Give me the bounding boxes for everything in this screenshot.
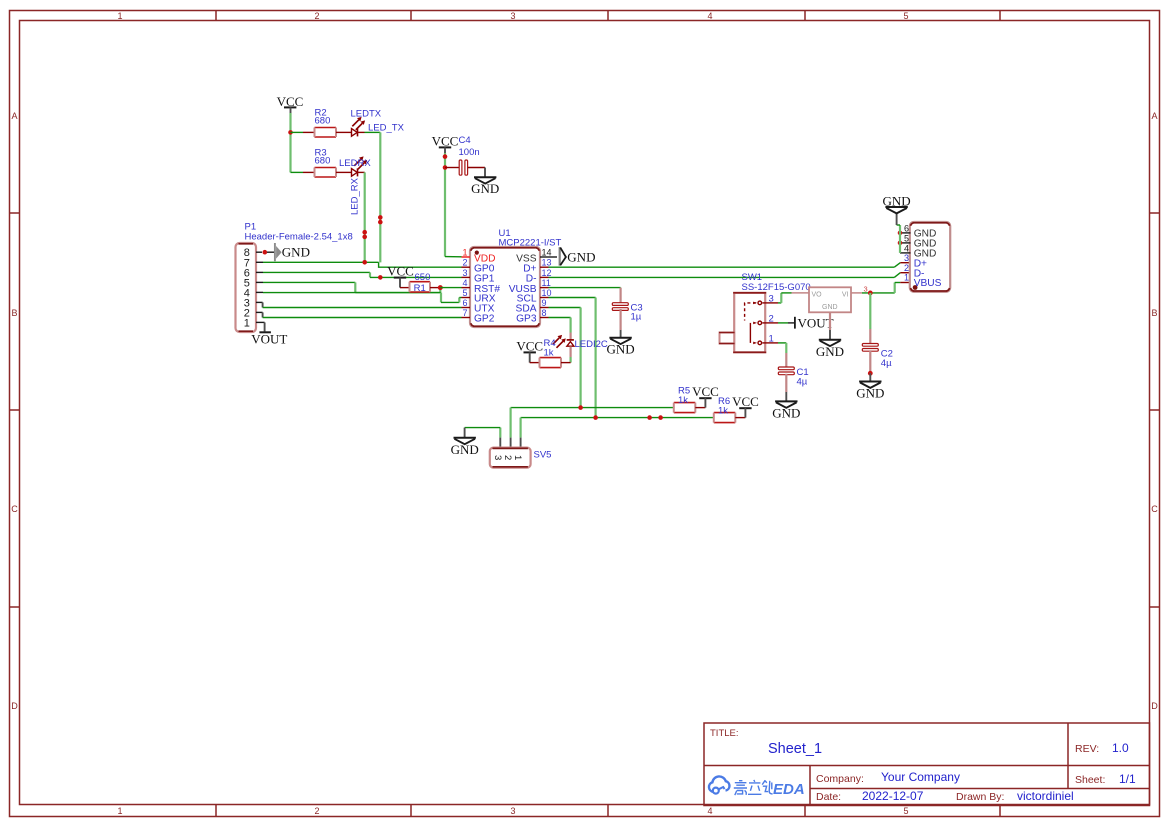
svg-text:1µ: 1µ bbox=[631, 312, 642, 323]
svg-text:1: 1 bbox=[769, 334, 774, 345]
switch SW1 SS-12F15-G070 bbox=[719, 272, 811, 352]
connector USB bbox=[900, 222, 950, 292]
svg-text:4: 4 bbox=[707, 11, 712, 21]
svg-text:GND: GND bbox=[451, 442, 479, 457]
svg-text:C: C bbox=[11, 504, 18, 514]
svg-text:Date:: Date: bbox=[816, 791, 841, 803]
svg-text:SV5: SV5 bbox=[534, 450, 552, 461]
svg-text:REV:: REV: bbox=[1075, 743, 1099, 755]
wire R3 left bbox=[291, 171, 315, 173]
wire RST junction to U1 bbox=[440, 287, 461, 289]
svg-text:1: 1 bbox=[512, 455, 523, 460]
wire R2 left bbox=[291, 131, 304, 133]
node dots on LED_TX wire bbox=[378, 215, 383, 220]
svg-text:B: B bbox=[11, 308, 17, 318]
node junction at R2 bbox=[288, 130, 293, 135]
node USB pin5 bbox=[898, 241, 903, 246]
svg-text:VCC: VCC bbox=[432, 134, 459, 149]
wire VUSB to C3 bbox=[549, 288, 621, 303]
svg-text:3: 3 bbox=[462, 268, 467, 278]
svg-text:2: 2 bbox=[314, 806, 319, 816]
wire SW1 pin1 to C1 bbox=[778, 343, 786, 368]
capacitor C4 bbox=[445, 135, 485, 175]
wire VDD from VCC bbox=[445, 256, 462, 258]
svg-text:MCP2221-I/ST: MCP2221-I/ST bbox=[499, 238, 562, 249]
power flag VCC (R6) bbox=[732, 394, 759, 417]
resistor R4 bbox=[530, 338, 571, 368]
svg-text:8: 8 bbox=[542, 308, 547, 318]
svg-text:C: C bbox=[1151, 504, 1158, 514]
svg-text:Company:: Company: bbox=[816, 773, 864, 785]
svg-text:A: A bbox=[1151, 111, 1157, 121]
ground (USB) bbox=[883, 194, 911, 225]
resistor R6 bbox=[714, 396, 746, 423]
svg-text:R1: R1 bbox=[414, 283, 426, 294]
wire P1 pin3 to UTX bbox=[256, 302, 462, 307]
node dots near C4 bbox=[443, 154, 448, 159]
power flag VCC (R1) bbox=[387, 264, 414, 288]
node dots on LED_RX wire bbox=[362, 230, 367, 235]
wire D+ to USB bbox=[549, 263, 911, 268]
svg-text:GND: GND bbox=[567, 250, 595, 265]
svg-text:GP2: GP2 bbox=[474, 314, 495, 325]
ground (C1) bbox=[772, 392, 800, 421]
svg-text:10: 10 bbox=[542, 288, 552, 298]
svg-text:Sheet:: Sheet: bbox=[1075, 774, 1105, 786]
wire P1 pin6 to U1 GP1 bbox=[256, 272, 462, 277]
net label VOUT (P1 pin1) bbox=[251, 322, 287, 346]
svg-text:A: A bbox=[11, 111, 17, 121]
svg-text:SS-12F15-G070: SS-12F15-G070 bbox=[742, 282, 811, 293]
svg-text:13: 13 bbox=[542, 258, 552, 268]
connector P1 bbox=[236, 222, 353, 333]
capacitor C1 bbox=[778, 367, 808, 392]
svg-text:1k: 1k bbox=[718, 406, 728, 417]
node LED_RX / GP0 bbox=[362, 260, 367, 265]
svg-text:GND: GND bbox=[883, 194, 911, 209]
wire regulator VI to VBUS bbox=[862, 283, 911, 293]
svg-text:650: 650 bbox=[415, 272, 431, 283]
svg-text:4: 4 bbox=[462, 278, 467, 288]
svg-text:2: 2 bbox=[769, 314, 774, 325]
node SCL bbox=[593, 415, 598, 420]
svg-text:GND: GND bbox=[282, 245, 310, 260]
ground (P1 pin8) bbox=[267, 243, 310, 261]
wire SW1 pin3 to regulator bbox=[778, 293, 792, 303]
svg-text:1: 1 bbox=[462, 248, 467, 258]
connector SV5 bbox=[490, 438, 552, 468]
node VI junction bbox=[868, 291, 873, 296]
wire junction to C2 bbox=[869, 293, 871, 344]
svg-text:3: 3 bbox=[864, 285, 868, 294]
svg-text:3: 3 bbox=[492, 455, 503, 460]
node C2 bottom bbox=[868, 371, 873, 376]
svg-text:GND: GND bbox=[772, 406, 800, 421]
node LED_TX / GP1 bbox=[378, 275, 383, 280]
svg-text:1: 1 bbox=[117, 806, 122, 816]
svg-text:GND: GND bbox=[856, 386, 884, 401]
svg-text:3: 3 bbox=[510, 11, 515, 21]
svg-text:VOUT: VOUT bbox=[798, 315, 834, 330]
svg-text:680: 680 bbox=[315, 116, 331, 127]
svg-text:2: 2 bbox=[462, 258, 467, 268]
capacitor C3 bbox=[612, 303, 642, 331]
wire P1 pin4 to URX bbox=[256, 292, 462, 302]
wire P1 pin7 to U1 GP0 bbox=[256, 262, 462, 267]
ground (C4) bbox=[471, 168, 499, 197]
node RST junction bbox=[438, 285, 443, 290]
svg-text:EDA: EDA bbox=[773, 781, 805, 798]
svg-text:VI: VI bbox=[842, 292, 849, 299]
logo JLCEDA bbox=[709, 776, 805, 798]
svg-text:VCC: VCC bbox=[387, 264, 414, 279]
ground (C3) bbox=[607, 330, 635, 357]
wire D- to USB bbox=[549, 273, 911, 278]
LED LEDI2C bbox=[553, 318, 608, 363]
ground (regulator) bbox=[816, 312, 844, 359]
wire SDA down bbox=[549, 308, 581, 408]
svg-text:VCC: VCC bbox=[732, 394, 759, 409]
wire USB grounds up bbox=[897, 225, 900, 253]
svg-text:680: 680 bbox=[315, 156, 331, 167]
svg-text:victordiniel: victordiniel bbox=[1017, 789, 1074, 803]
node P1 pin8 bbox=[263, 250, 268, 255]
svg-text:VCC: VCC bbox=[516, 338, 543, 353]
svg-text:D: D bbox=[11, 701, 18, 711]
svg-text:LEDI2C: LEDI2C bbox=[575, 339, 608, 350]
svg-text:GND: GND bbox=[471, 181, 499, 196]
node dots on SCL row bbox=[647, 415, 652, 420]
power flag VCC (R4) bbox=[516, 338, 543, 362]
svg-text:Header-Female-2.54_1x8: Header-Female-2.54_1x8 bbox=[245, 232, 353, 243]
ground (SV5) bbox=[451, 428, 479, 457]
power flag VCC (C4) bbox=[432, 134, 459, 153]
svg-text:VO: VO bbox=[812, 292, 823, 299]
svg-text:100n: 100n bbox=[459, 147, 480, 158]
svg-text:LEDTX: LEDTX bbox=[351, 109, 382, 120]
svg-text:5: 5 bbox=[904, 233, 909, 243]
node USB pin6 bbox=[898, 231, 903, 236]
svg-text:1: 1 bbox=[117, 11, 122, 21]
svg-text:14: 14 bbox=[542, 248, 552, 258]
wire LED_TX down bbox=[358, 132, 380, 262]
svg-text:D: D bbox=[1151, 701, 1158, 711]
capacitor C2 bbox=[862, 344, 893, 372]
wire P1 pin8 to GND bbox=[256, 251, 262, 253]
resistor R5 bbox=[674, 386, 706, 413]
net label VOUT (SW1 pin2) bbox=[778, 315, 834, 330]
power flag VCC (R5) bbox=[692, 384, 719, 407]
IC U1 MCP2221-I/ST bbox=[462, 228, 562, 327]
LED LEDRX bbox=[339, 156, 371, 176]
svg-text:TITLE:: TITLE: bbox=[710, 728, 739, 739]
svg-text:12: 12 bbox=[542, 268, 552, 278]
svg-text:4: 4 bbox=[904, 243, 909, 253]
svg-text:6: 6 bbox=[462, 298, 467, 308]
wire SCL row to R6 bbox=[521, 417, 714, 419]
wire R3 to LED bbox=[336, 171, 352, 173]
svg-text:2: 2 bbox=[314, 11, 319, 21]
svg-text:4µ: 4µ bbox=[797, 377, 808, 388]
svg-text:1: 1 bbox=[244, 317, 250, 329]
svg-text:C4: C4 bbox=[459, 135, 471, 146]
svg-text:VOUT: VOUT bbox=[251, 331, 287, 346]
svg-text:11: 11 bbox=[542, 278, 551, 288]
svg-text:B: B bbox=[1151, 308, 1157, 318]
svg-text:GND: GND bbox=[816, 344, 844, 359]
svg-text:Your Company: Your Company bbox=[881, 770, 960, 784]
wire GP3 down bbox=[549, 317, 571, 319]
wire P1 pin2 to GP2 bbox=[256, 312, 462, 317]
wire SCL down bbox=[549, 298, 596, 418]
svg-text:VCC: VCC bbox=[692, 384, 719, 399]
svg-text:5: 5 bbox=[903, 806, 908, 816]
title block bbox=[704, 723, 1150, 806]
wire R2 to LED bbox=[336, 131, 352, 133]
svg-text:GND: GND bbox=[822, 304, 838, 311]
svg-text:1: 1 bbox=[904, 272, 909, 282]
svg-text:6: 6 bbox=[904, 223, 909, 233]
svg-text:5: 5 bbox=[903, 11, 908, 21]
svg-text:LEDRX: LEDRX bbox=[339, 158, 371, 169]
svg-text:4: 4 bbox=[707, 806, 712, 816]
ground (C2) bbox=[856, 373, 884, 400]
wire LED_RX down bbox=[358, 172, 365, 262]
svg-text:1k: 1k bbox=[544, 348, 554, 359]
svg-text:GP3: GP3 bbox=[516, 314, 537, 325]
svg-text:5: 5 bbox=[462, 288, 467, 298]
svg-text:Drawn By:: Drawn By: bbox=[956, 791, 1004, 803]
svg-text:1.0: 1.0 bbox=[1112, 741, 1129, 755]
power flag VCC (top-left) bbox=[277, 94, 304, 113]
wires down to SV5 bbox=[465, 408, 521, 438]
wire SDA row to R5 bbox=[511, 407, 674, 409]
svg-text:GND: GND bbox=[607, 342, 635, 357]
svg-text:Sheet_1: Sheet_1 bbox=[768, 741, 822, 757]
wire VCC down to VDD bbox=[444, 153, 446, 257]
svg-text:1k: 1k bbox=[678, 395, 688, 406]
svg-text:4µ: 4µ bbox=[881, 358, 892, 369]
resistor R1 bbox=[400, 272, 440, 294]
svg-text:LED_RX: LED_RX bbox=[350, 177, 361, 215]
svg-text:3: 3 bbox=[769, 294, 774, 305]
svg-text:2022-12-07: 2022-12-07 bbox=[862, 789, 924, 803]
resistor R2 bbox=[315, 108, 337, 138]
svg-text:1/1: 1/1 bbox=[1119, 772, 1136, 786]
svg-text:9: 9 bbox=[542, 298, 547, 308]
svg-text:3: 3 bbox=[904, 253, 909, 263]
svg-text:3: 3 bbox=[510, 806, 515, 816]
svg-text:2: 2 bbox=[502, 455, 513, 460]
resistor R3 bbox=[315, 148, 337, 178]
svg-text:VBUS: VBUS bbox=[914, 278, 942, 289]
wire P1 pin5 to RST# bbox=[256, 282, 440, 292]
wire VCC vertical to R2/R3 bbox=[289, 113, 291, 172]
LED LEDTX bbox=[351, 109, 382, 137]
node SDA bbox=[578, 405, 583, 410]
voltage regulator bbox=[792, 285, 868, 313]
ground (VSS pin14) bbox=[549, 247, 596, 266]
svg-text:7: 7 bbox=[462, 308, 467, 318]
